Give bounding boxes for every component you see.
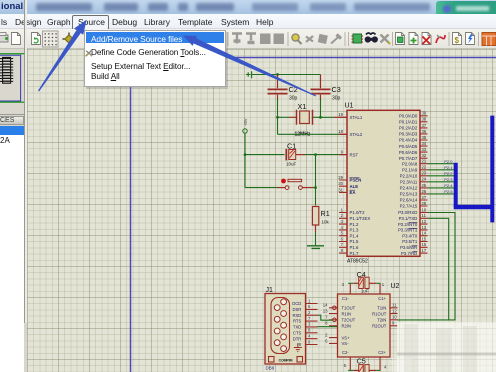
icon: align bottom xyxy=(246,34,256,41)
node: C1 branch junction xyxy=(244,153,247,156)
node: rail/C2 junction xyxy=(276,73,279,76)
capacitor C2 xyxy=(268,75,298,102)
icon: red lasso xyxy=(436,35,445,43)
icon: page plus xyxy=(409,33,418,45)
power terminal +5V xyxy=(243,118,248,133)
icon: block2 xyxy=(274,34,285,45)
icon: grid toggle (pressed) xyxy=(43,31,59,47)
node: crystal right junction xyxy=(319,116,322,119)
wire: C3 bottom down to XTAL1 row xyxy=(320,99,322,117)
icon: refresh page xyxy=(32,33,41,45)
sheet border top edge xyxy=(130,57,496,59)
icon: page remove xyxy=(422,33,431,45)
wire: XTAL2 row to pin 18 xyxy=(278,133,340,135)
left column xyxy=(0,49,27,372)
icon: align top xyxy=(232,34,242,44)
resistor R1 10k xyxy=(312,207,329,233)
power flag symbol xyxy=(246,71,252,78)
wire: crystal left lead xyxy=(278,116,290,118)
ground xyxy=(307,246,324,249)
icon: tools-x xyxy=(381,35,389,43)
icon: page dollar xyxy=(453,33,462,45)
node: RST vertical junction xyxy=(314,153,317,156)
wire: power rail to C2/C3 tops xyxy=(252,74,321,76)
wire: +5V terminal down to switch row xyxy=(244,133,246,187)
overview viewport lines xyxy=(0,54,24,102)
icon: tool2 xyxy=(318,34,328,44)
crystal X1 xyxy=(289,102,347,137)
overview circuit thumbnail xyxy=(3,57,11,83)
capacitor C1 (electrolytic 10uF) xyxy=(286,141,305,166)
icon: orange table xyxy=(482,33,496,46)
capacitor C5 xyxy=(348,359,380,372)
wire: R1 to ground xyxy=(315,232,317,245)
dropdown menu xyxy=(84,30,226,87)
annotation arrow to Source menu xyxy=(38,30,81,91)
wire: P3.1/TXD to vertical drop xyxy=(428,218,449,320)
icon: tool1 xyxy=(306,36,313,42)
icon: print xyxy=(0,35,8,42)
icon: hammer xyxy=(331,37,339,44)
push button switch xyxy=(277,179,313,190)
wire: switch to RST vertical xyxy=(313,187,316,189)
title bar xyxy=(0,0,496,14)
bus: right edge vertical bus xyxy=(490,116,494,223)
watermark wash xyxy=(392,322,496,372)
bus: horizontal connector xyxy=(454,205,493,209)
wire: P3.0/RXD to vertical drop xyxy=(428,213,456,321)
wire: crystal right lead to XTAL1 pin 19 xyxy=(313,116,335,118)
icon: component xyxy=(353,34,362,43)
wire: switch row left xyxy=(245,187,277,189)
toolbar xyxy=(0,29,496,49)
wire: horizontal to U2 T2IN xyxy=(397,319,455,321)
microcontroller U1 AT89C52 xyxy=(338,103,454,265)
capacitor C4 xyxy=(348,272,380,294)
wire: C1 to RST pin 9 xyxy=(305,154,340,156)
wire: C2 bottom down to XTAL2 row xyxy=(277,99,279,134)
node: switch right junction xyxy=(314,186,317,189)
connector J1 DB9 xyxy=(265,287,318,371)
wire: J1 TXD to U2 R2IN xyxy=(318,326,338,328)
sheet border left edge xyxy=(130,58,132,372)
menu bar xyxy=(0,14,496,29)
icon: zoom xyxy=(292,34,299,41)
overview sheet rect xyxy=(0,55,21,101)
icon: page bolt xyxy=(466,33,475,45)
node: crystal left junction xyxy=(276,116,279,119)
annotation arrow to Add/Remove Source files xyxy=(194,38,317,96)
icon: page chip xyxy=(396,33,405,45)
wire: RST node down to R1 xyxy=(315,155,317,206)
bus: P2 vertical bus xyxy=(454,163,458,207)
icon: block1 xyxy=(260,34,271,45)
wire: branch to C1 xyxy=(245,154,285,156)
icon: new page xyxy=(12,33,21,45)
capacitor C3 xyxy=(311,75,341,102)
chip U2 MAX232 xyxy=(323,282,400,370)
icon: find xyxy=(366,33,376,35)
wire: J1 RXD to U2 T2OUT xyxy=(318,315,333,320)
